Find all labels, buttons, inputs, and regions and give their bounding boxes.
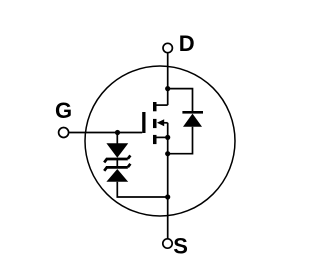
channel drain segment [153, 102, 157, 111]
wire between zener cathodes [116, 159, 118, 167]
gate electrode bar [142, 112, 145, 133]
wire D terminal to drain node [167, 53, 169, 89]
body diode (cathode up, between drain and source) [182, 111, 203, 127]
channel source segment [153, 135, 157, 144]
zener diode Z1 (pointing down) [104, 143, 130, 162]
svg-text:D: D [179, 31, 195, 56]
body stub wire [163, 122, 168, 124]
node diode-source junction [165, 151, 170, 156]
n-channel MOSFET [142, 102, 168, 144]
channel body segment [153, 119, 157, 128]
node drain junction [165, 86, 170, 91]
gate wire G terminal to gate electrode [69, 132, 143, 134]
wire drain node down to MOSFET drain stub [167, 89, 169, 106]
terminal G pin circle [59, 128, 69, 138]
wire drain node to body diode cathode (top rail) [168, 89, 193, 112]
node zener-source junction [165, 194, 170, 199]
body arrow (points to channel) [157, 119, 164, 126]
zener diode Z2 (pointing up) [104, 164, 130, 182]
svg-text:S: S [173, 234, 188, 259]
source wire down to S terminal [167, 137, 169, 239]
package case circle [85, 66, 235, 216]
wire zener Z2 anode to source rail [117, 182, 167, 197]
body to source tie wire [167, 123, 169, 138]
wire gate node to zener Z1 anode [116, 133, 118, 144]
wire body diode anode to source node (bottom rail) [168, 127, 193, 154]
drain stub wire [157, 104, 168, 106]
node gate-zener junction [115, 130, 120, 135]
node source junction [165, 135, 170, 140]
source stub wire [157, 136, 168, 138]
terminal S pin circle [163, 239, 172, 248]
terminal D pin circle [163, 43, 172, 52]
svg-text:G: G [55, 98, 72, 123]
